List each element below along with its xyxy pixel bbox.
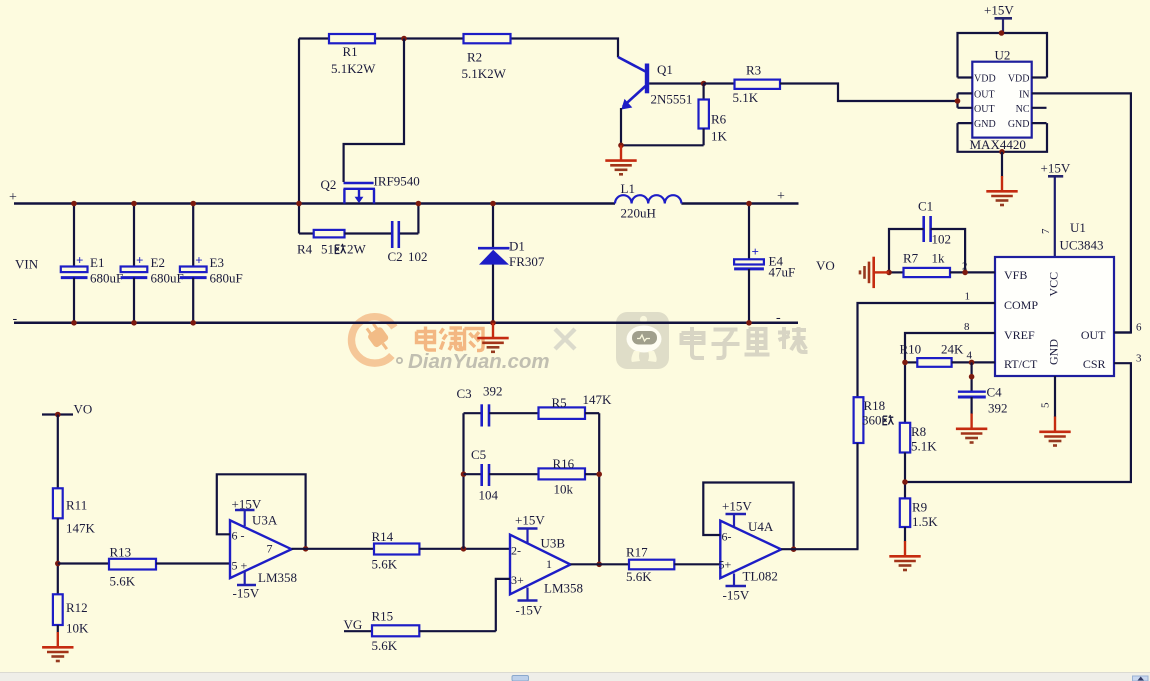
svg-text:5.1K2W: 5.1K2W bbox=[462, 66, 507, 81]
svg-text:R8: R8 bbox=[911, 424, 926, 439]
svg-text:LM358: LM358 bbox=[544, 581, 583, 596]
wire C network right vertical bbox=[598, 413, 600, 564]
wire U3B out to R17 bbox=[571, 563, 630, 565]
resistor R3 bbox=[704, 63, 780, 106]
wire U4A out to R18 bbox=[781, 548, 858, 550]
svg-text:COMP: COMP bbox=[1004, 298, 1038, 312]
ground U1 pin5 bbox=[1039, 417, 1070, 446]
power -15V U3B bbox=[516, 588, 543, 618]
svg-text:392: 392 bbox=[483, 384, 503, 399]
svg-text:Q2: Q2 bbox=[321, 177, 337, 192]
wire U2 VDD bracket bbox=[958, 33, 1048, 78]
svg-text:680uF: 680uF bbox=[151, 271, 184, 286]
svg-text:VCC: VCC bbox=[1047, 272, 1061, 297]
svg-text:+: + bbox=[777, 189, 785, 204]
svg-text:+: + bbox=[195, 253, 202, 268]
node junction U2 OUT pins bbox=[955, 98, 961, 104]
node junction R8/R9/CSR bbox=[902, 479, 908, 485]
node junction U4A out bbox=[791, 546, 797, 552]
svg-text:R10: R10 bbox=[900, 342, 922, 357]
capacitor C2 bbox=[388, 201, 428, 264]
svg-text:MAX4420: MAX4420 bbox=[970, 137, 1026, 152]
wire U2 left pins bbox=[958, 78, 973, 124]
svg-text:+: + bbox=[9, 190, 17, 205]
svg-text:1: 1 bbox=[965, 291, 971, 303]
capacitor E1 bbox=[61, 201, 123, 326]
svg-text:R17: R17 bbox=[626, 545, 648, 560]
op-amp U4A bbox=[719, 519, 782, 584]
svg-text:OUT: OUT bbox=[1081, 328, 1106, 342]
svg-text:5.6K: 5.6K bbox=[372, 638, 398, 653]
inductor L1 bbox=[615, 181, 681, 221]
power +15V U3B bbox=[515, 513, 545, 543]
svg-text:147K: 147K bbox=[583, 392, 613, 407]
wire U1 OUT pin6 stub bbox=[1114, 331, 1131, 333]
svg-text:8: 8 bbox=[964, 321, 970, 333]
svg-text:R9: R9 bbox=[912, 500, 927, 515]
node junction U2 GND bbox=[999, 149, 1005, 155]
node junction U3B out bbox=[596, 562, 602, 568]
svg-text:R13: R13 bbox=[110, 545, 132, 560]
op-amp U3A bbox=[230, 513, 297, 586]
ground R9 bbox=[889, 541, 920, 570]
svg-text:220uH: 220uH bbox=[621, 206, 656, 221]
op-amp U2 MAX4420 box bbox=[970, 48, 1032, 153]
svg-text:4: 4 bbox=[967, 350, 973, 362]
svg-text:U1: U1 bbox=[1070, 220, 1086, 235]
svg-text:FR307: FR307 bbox=[509, 254, 545, 269]
node junction U3A out bbox=[303, 546, 309, 552]
svg-text:2N5551: 2N5551 bbox=[651, 92, 693, 107]
svg-text:C5: C5 bbox=[471, 447, 486, 462]
svg-text:R11: R11 bbox=[66, 498, 87, 513]
resistor R16 bbox=[539, 456, 600, 497]
svg-text:U3B: U3B bbox=[541, 536, 566, 551]
node junction emitter ground bbox=[618, 143, 624, 149]
svg-text:5 +: 5 + bbox=[232, 559, 248, 573]
svg-text:R4: R4 bbox=[297, 242, 313, 257]
svg-text:7: 7 bbox=[267, 542, 273, 556]
node junction VFB pin2 bbox=[962, 270, 968, 276]
node junction base/R3/R6 bbox=[701, 81, 707, 87]
svg-text:-: - bbox=[13, 312, 18, 327]
svg-text:1k: 1k bbox=[932, 251, 946, 266]
power -15V U3A bbox=[233, 571, 260, 601]
svg-text:VG: VG bbox=[344, 617, 363, 632]
capacitor E2 bbox=[121, 201, 184, 326]
node junction C4 top bbox=[969, 374, 975, 380]
wire COMP pin1 bbox=[858, 303, 996, 397]
resistor R11 bbox=[53, 415, 96, 595]
svg-text:VO: VO bbox=[74, 402, 93, 417]
node junction R7 left bbox=[886, 270, 892, 276]
svg-text:CSR: CSR bbox=[1083, 357, 1106, 371]
capacitor C5 bbox=[464, 447, 539, 503]
svg-text:102: 102 bbox=[932, 232, 952, 247]
svg-text:Q1: Q1 bbox=[657, 62, 673, 77]
resistor R15 bbox=[344, 609, 496, 654]
svg-text:C1: C1 bbox=[918, 199, 933, 214]
svg-text:1: 1 bbox=[546, 557, 552, 571]
svg-text:392: 392 bbox=[988, 401, 1008, 416]
svg-text:+15V: +15V bbox=[1041, 161, 1071, 176]
svg-text:+15V: +15V bbox=[722, 499, 752, 514]
wire + rail top bbox=[14, 202, 799, 205]
svg-text:C3: C3 bbox=[457, 386, 472, 401]
svg-text:+: + bbox=[76, 253, 83, 268]
svg-text:DianYuan.com: DianYuan.com bbox=[408, 350, 550, 373]
wire U2 GND bracket bbox=[958, 123, 1048, 152]
svg-text:VDD: VDD bbox=[974, 74, 996, 85]
resistor R17 bbox=[626, 545, 720, 585]
ground on - rail under D1 bbox=[477, 323, 508, 352]
svg-text:GND: GND bbox=[1047, 339, 1061, 365]
svg-text:R1: R1 bbox=[343, 44, 358, 59]
svg-text:R16: R16 bbox=[553, 456, 575, 471]
svg-text:VREF: VREF bbox=[1004, 328, 1035, 342]
ground U2 bbox=[986, 176, 1017, 205]
svg-text:R7: R7 bbox=[903, 251, 919, 266]
wire U2 gnd stem bbox=[1001, 152, 1003, 177]
svg-text:10k: 10k bbox=[554, 482, 574, 497]
svg-text:TL082: TL082 bbox=[743, 569, 778, 584]
capacitor C1 bbox=[889, 199, 965, 273]
wire U1 GND pin5 bbox=[1054, 376, 1056, 417]
wire U2 right pins bbox=[1032, 78, 1047, 124]
svg-text:U3A: U3A bbox=[252, 513, 278, 528]
resistor R4 bbox=[297, 230, 391, 257]
capacitor E3 bbox=[180, 201, 243, 326]
resistor R9 bbox=[900, 498, 938, 541]
svg-text:R14: R14 bbox=[372, 529, 394, 544]
resistor R12 bbox=[53, 594, 89, 635]
resistor R10 bbox=[900, 342, 996, 367]
svg-text:R12: R12 bbox=[66, 600, 88, 615]
svg-text:-15V: -15V bbox=[723, 588, 750, 603]
power +15V above U2 bbox=[984, 3, 1014, 34]
svg-text:L1: L1 bbox=[621, 181, 635, 196]
watermark ezb chinese text bbox=[682, 327, 808, 358]
svg-text:OUT: OUT bbox=[974, 104, 995, 115]
ground C4 bbox=[956, 414, 987, 443]
node junction rail/R1R4 bbox=[296, 201, 302, 207]
svg-text:5.1K: 5.1K bbox=[733, 90, 759, 105]
resistor R1 bbox=[329, 34, 376, 76]
wire U3A feedback loop bbox=[217, 474, 306, 549]
svg-text:D1: D1 bbox=[509, 239, 525, 254]
resistor R18 bbox=[854, 397, 894, 549]
wire top loop R1 left leg bbox=[298, 39, 300, 234]
svg-text:VO: VO bbox=[816, 258, 835, 273]
node junction R16 right bbox=[596, 471, 602, 477]
svg-text:U4A: U4A bbox=[748, 519, 774, 534]
transistor Q1 2N5551 bbox=[618, 57, 692, 145]
svg-text:C4: C4 bbox=[987, 385, 1003, 400]
svg-text:R3: R3 bbox=[746, 63, 761, 78]
svg-text:C2: C2 bbox=[388, 249, 403, 264]
svg-text:2: 2 bbox=[962, 261, 968, 273]
svg-text:VFB: VFB bbox=[1004, 268, 1027, 282]
svg-text:360: 360 bbox=[862, 413, 882, 428]
svg-text:5: 5 bbox=[1040, 402, 1052, 408]
svg-text:+: + bbox=[752, 244, 759, 259]
capacitor E4 bbox=[734, 201, 795, 326]
wire gate zigzag bbox=[344, 39, 404, 183]
svg-text:147K: 147K bbox=[66, 521, 96, 536]
op-amp U1 UC3843 box bbox=[995, 220, 1114, 376]
wire U2 IN to U1 OUT bbox=[1047, 93, 1131, 332]
svg-text:R18: R18 bbox=[864, 398, 886, 413]
wire U3A out to R14 bbox=[292, 548, 375, 550]
svg-text:2W: 2W bbox=[347, 242, 367, 257]
svg-text:LM358: LM358 bbox=[258, 570, 297, 585]
wire - rail bottom bbox=[14, 322, 798, 325]
svg-text:5.1K: 5.1K bbox=[911, 439, 937, 454]
resistor R7 bbox=[889, 251, 995, 278]
svg-text:-15V: -15V bbox=[516, 603, 543, 618]
svg-text:51: 51 bbox=[321, 242, 334, 257]
svg-text:680uF: 680uF bbox=[210, 271, 243, 286]
resistor R5 bbox=[539, 392, 613, 419]
svg-text:-15V: -15V bbox=[233, 586, 260, 601]
node junction C-network bottom bbox=[461, 546, 467, 552]
wire R15 to U3B pin3 bbox=[496, 579, 510, 631]
svg-text:OUT: OUT bbox=[974, 90, 995, 101]
svg-text:6-: 6- bbox=[722, 530, 732, 544]
diode D1 FR307 bbox=[478, 201, 545, 326]
svg-text:6: 6 bbox=[1136, 322, 1142, 334]
svg-text:3+: 3+ bbox=[511, 573, 524, 587]
watermark dianyuan chinese text bbox=[417, 327, 484, 351]
svg-text:E2: E2 bbox=[151, 255, 165, 270]
wire Q1 base to junction bbox=[649, 82, 703, 84]
resistor R6 bbox=[699, 84, 728, 146]
svg-text:2-: 2- bbox=[511, 544, 521, 558]
svg-text:7: 7 bbox=[1040, 228, 1052, 234]
ground left of R7 rotated bbox=[860, 257, 889, 288]
node junction R1-R2/gate bbox=[401, 36, 407, 42]
op-amp U3B bbox=[510, 535, 583, 596]
node junction RT/CT pin4 bbox=[969, 360, 975, 366]
svg-text:10K: 10K bbox=[66, 621, 89, 636]
svg-text:GND: GND bbox=[974, 119, 996, 130]
wire CSR pin3 to R8/R9 bbox=[905, 363, 1131, 482]
svg-text:NC: NC bbox=[1016, 104, 1030, 115]
svg-text:3: 3 bbox=[1136, 353, 1142, 365]
svg-text:102: 102 bbox=[408, 249, 428, 264]
transistor Q2 IRF9540 bbox=[344, 183, 376, 204]
wire R3 to U2 input bbox=[780, 84, 958, 102]
node junction +15V bracket bbox=[999, 30, 1005, 36]
svg-text:R5: R5 bbox=[552, 395, 567, 410]
svg-text:5.1K2W: 5.1K2W bbox=[331, 61, 376, 76]
power +15V U3A bbox=[232, 497, 262, 527]
svg-text:47uF: 47uF bbox=[769, 265, 796, 280]
wire R6 bottom to emitter bbox=[621, 144, 704, 146]
wire VREF pin8 bbox=[905, 333, 995, 423]
power -15V U4A bbox=[723, 574, 750, 603]
svg-text:1K: 1K bbox=[711, 129, 728, 144]
svg-text:5.6K: 5.6K bbox=[110, 574, 136, 589]
svg-text:5.6K: 5.6K bbox=[626, 569, 652, 584]
resistor R8 bbox=[900, 423, 937, 499]
watermark left logo bbox=[352, 317, 395, 363]
wire U4A feedback loop bbox=[703, 483, 793, 550]
power +15V above U1 bbox=[1041, 161, 1071, 258]
svg-text:GND: GND bbox=[1008, 119, 1030, 130]
svg-text:U2: U2 bbox=[995, 48, 1011, 63]
svg-text:1.5K: 1.5K bbox=[912, 514, 938, 529]
svg-text:104: 104 bbox=[479, 488, 499, 503]
svg-text:-: - bbox=[776, 311, 781, 326]
svg-text:680uF: 680uF bbox=[90, 271, 123, 286]
resistor R14 bbox=[372, 529, 511, 572]
watermark x separator bbox=[555, 329, 575, 349]
node junction C5 left bbox=[461, 471, 467, 477]
node VO bottom bbox=[42, 402, 92, 418]
scrollbar strip bbox=[0, 672, 1150, 681]
capacitor C4 bbox=[958, 385, 1008, 416]
watermark robot logo bbox=[616, 312, 669, 369]
svg-text:E1: E1 bbox=[90, 255, 104, 270]
svg-text:6 -: 6 - bbox=[232, 529, 245, 543]
svg-text:+15V: +15V bbox=[984, 3, 1014, 18]
capacitor C3 bbox=[457, 384, 539, 427]
svg-text:VDD: VDD bbox=[1008, 74, 1030, 85]
svg-text:5+: 5+ bbox=[719, 558, 732, 572]
wire top R1 to R2 to Q1 bbox=[299, 39, 618, 58]
node junction R11/R12/R13 bbox=[55, 561, 61, 567]
svg-text:+: + bbox=[136, 253, 143, 268]
svg-text:UC3843: UC3843 bbox=[1060, 238, 1104, 253]
svg-text:5.6K: 5.6K bbox=[372, 557, 398, 572]
wire C network left vertical bbox=[462, 413, 464, 549]
svg-text:24K: 24K bbox=[941, 342, 964, 357]
svg-text:IRF9540: IRF9540 bbox=[374, 174, 420, 189]
svg-text:RT/CT: RT/CT bbox=[1004, 357, 1038, 371]
node junction R10 left bbox=[902, 360, 908, 366]
svg-text:VIN: VIN bbox=[15, 257, 39, 272]
svg-text:IN: IN bbox=[1019, 90, 1030, 101]
ground R12 bbox=[42, 632, 73, 661]
svg-text:R2: R2 bbox=[467, 50, 482, 65]
ground Q1 emitter bbox=[605, 145, 636, 174]
wire to C4 bbox=[970, 362, 972, 391]
resistor R2 bbox=[462, 34, 511, 81]
svg-text:+15V: +15V bbox=[515, 513, 545, 528]
svg-text:R15: R15 bbox=[372, 609, 394, 624]
watermark dianyuan.com bbox=[397, 350, 550, 373]
power +15V U4A bbox=[722, 499, 752, 529]
svg-text:R6: R6 bbox=[711, 112, 727, 127]
svg-text:E3: E3 bbox=[210, 255, 224, 270]
resistor R13 bbox=[58, 545, 230, 589]
